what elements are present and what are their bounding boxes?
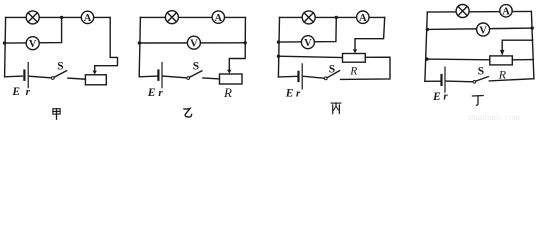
wire left rail 丁 <box>425 12 427 81</box>
svg-text:S: S <box>478 65 484 77</box>
label bing character 丙 <box>331 103 340 114</box>
node junction V 丙 <box>277 40 280 43</box>
wire right rail jog 甲 <box>95 17 118 71</box>
wire ammeter to slider 丙 <box>355 17 385 49</box>
wire switch to corner 丁 <box>489 79 534 81</box>
rheostat R1 甲 <box>85 75 106 85</box>
svg-text:E: E <box>147 87 156 99</box>
svg-text:r: r <box>26 86 31 98</box>
node junction rheostat 丙 <box>277 55 280 58</box>
svg-text:A: A <box>502 7 510 18</box>
wire voltmeter branch 丁 <box>427 28 532 29</box>
battery E r 乙 <box>158 63 162 88</box>
battery E r 甲 <box>24 63 28 88</box>
voltmeter V3 丙 <box>301 36 314 49</box>
lamp L1 甲 <box>26 11 39 24</box>
arrowhead onto rheostat 丙 <box>353 49 357 53</box>
wire voltmeter branch 丙 <box>279 17 337 42</box>
wire bottom battery 丁 <box>425 80 441 82</box>
svg-text:V: V <box>304 38 312 49</box>
node junction top 甲 <box>60 16 63 19</box>
wire battery to switch 丁 <box>446 80 473 83</box>
wire left rail 乙 <box>139 17 140 76</box>
wire top 甲 <box>6 16 111 18</box>
wire rheostat left 丙 <box>279 56 343 57</box>
svg-text:R: R <box>498 68 507 82</box>
rheostat R3 丙 <box>343 54 366 63</box>
svg-text:A: A <box>215 13 223 24</box>
wire slider feed 丁 <box>502 40 532 50</box>
wire bottom battery 甲 <box>5 75 23 78</box>
ammeter A3 丙 <box>357 11 369 24</box>
battery E r 丙 <box>299 64 303 89</box>
node junction top 丙 <box>335 16 338 19</box>
node junction rheostat left 丁 <box>425 57 428 60</box>
wire top 丙 <box>280 16 385 18</box>
svg-text:S: S <box>329 63 335 75</box>
wire rheostat right loop 丙 <box>341 57 390 79</box>
wire switch to rheostat 乙 <box>203 77 220 80</box>
rheostat R4 丁 <box>490 56 513 65</box>
voltmeter V4 丁 <box>477 23 490 36</box>
svg-text:A: A <box>359 13 367 24</box>
wire left rail 丙 <box>278 17 279 77</box>
arrowhead onto rheostat 甲 <box>93 71 97 75</box>
svg-text:E: E <box>11 86 20 98</box>
node junction right 乙 <box>244 41 247 44</box>
svg-text:r: r <box>158 87 163 99</box>
svg-text:r: r <box>296 88 301 100</box>
wire right rail 乙 <box>229 17 245 70</box>
label yi character 乙 <box>184 109 192 117</box>
arrowhead onto rheostat 乙 <box>227 70 231 74</box>
lamp L2 乙 <box>165 11 178 24</box>
wire voltmeter branch 乙 <box>139 42 245 44</box>
wire battery to switch 甲 <box>29 76 51 78</box>
wire rheostat left 丁 <box>427 58 490 61</box>
svg-text:R: R <box>223 85 232 100</box>
ammeter A4 丁 <box>500 5 512 18</box>
switch S1 甲 <box>51 71 66 80</box>
svg-text:manfen5. com: manfen5. com <box>469 112 520 122</box>
svg-text:E: E <box>432 91 441 103</box>
svg-text:S: S <box>193 61 199 73</box>
wire bottom battery 乙 <box>139 75 157 78</box>
wire switch to rheostat 甲 <box>68 78 86 79</box>
node junction V right 丁 <box>531 26 534 29</box>
wire left rail 甲 <box>5 17 6 76</box>
label jia character 甲 <box>53 109 60 120</box>
node junction V left 丁 <box>426 28 429 31</box>
switch S2 乙 <box>187 71 202 80</box>
wire right rail 丁 <box>531 11 534 78</box>
node junction left 甲 <box>3 41 6 44</box>
wire voltmeter branch 甲 <box>5 17 62 43</box>
wire rheostat right 丁 <box>512 59 533 61</box>
lamp L4 丁 <box>456 5 469 18</box>
svg-text:S: S <box>57 61 63 73</box>
wire battery to switch 丙 <box>303 76 324 78</box>
ammeter A1 甲 <box>81 11 93 24</box>
battery E r 丁 <box>442 67 446 92</box>
svg-text:V: V <box>190 39 198 50</box>
voltmeter V2 乙 <box>187 36 200 49</box>
arrowhead onto rheostat 丁 <box>500 50 504 56</box>
svg-text:V: V <box>29 39 37 50</box>
svg-text:E: E <box>285 88 294 100</box>
node junction left 乙 <box>138 41 141 44</box>
switch S3 丙 <box>324 71 339 80</box>
wire top 乙 <box>140 16 245 18</box>
svg-text:R: R <box>349 65 357 77</box>
lamp L3 丙 <box>302 11 315 24</box>
svg-text:A: A <box>84 13 92 24</box>
switch S4 丁 <box>473 77 488 84</box>
label ding character 丁 <box>472 96 483 106</box>
wire top 丁 <box>427 10 531 13</box>
voltmeter V1 甲 <box>26 37 39 50</box>
svg-text:r: r <box>443 91 448 103</box>
wire bottom battery 丙 <box>278 75 297 78</box>
rheostat R2 乙 <box>220 74 243 84</box>
ammeter A2 乙 <box>212 11 224 24</box>
wire battery to switch 乙 <box>163 76 187 78</box>
svg-text:V: V <box>479 25 487 36</box>
